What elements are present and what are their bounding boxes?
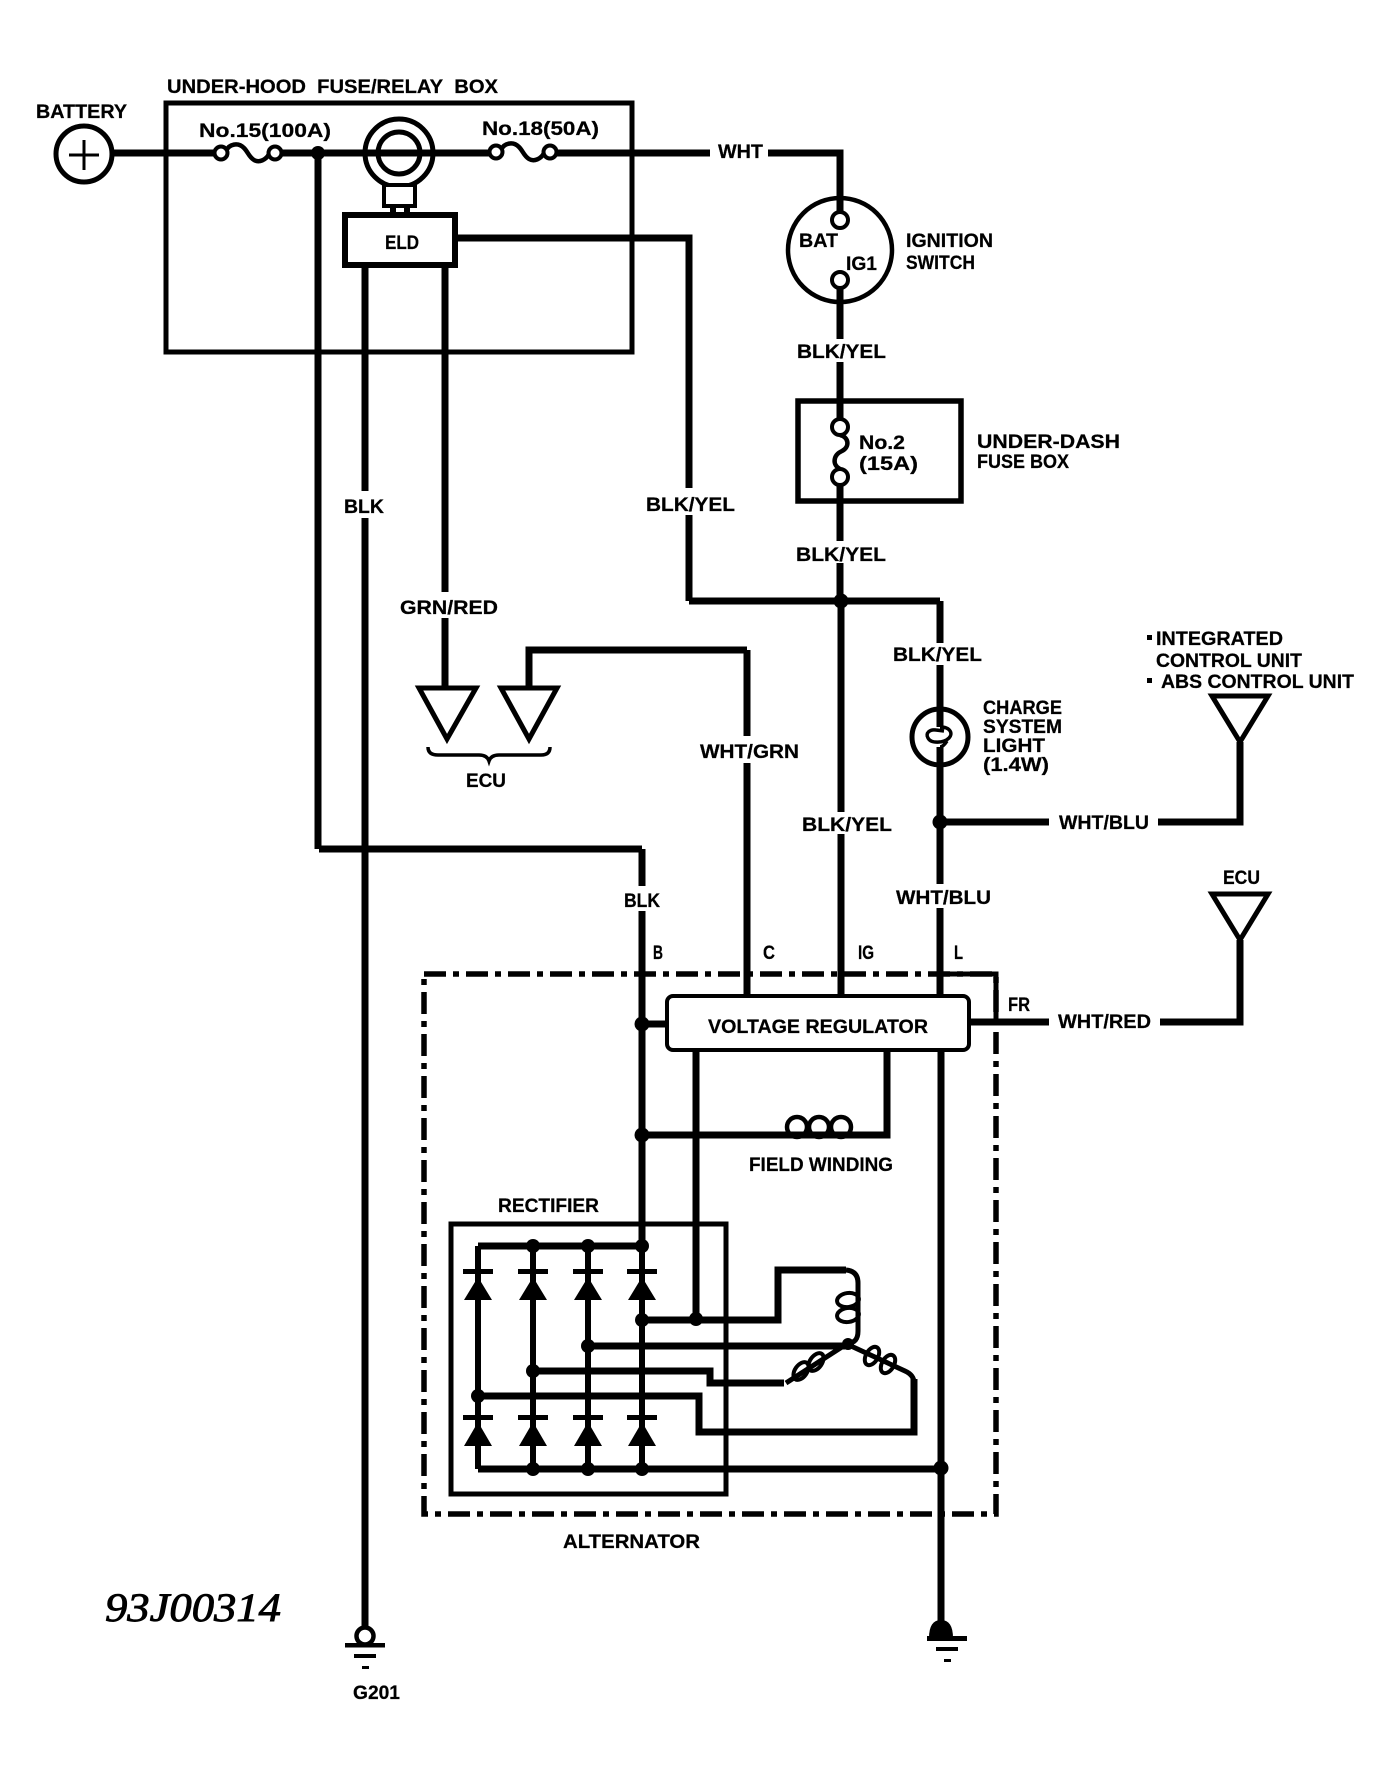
svg-text:BLK/YEL: BLK/YEL (796, 545, 886, 566)
junction dot bottom bus col4 (635, 1462, 649, 1476)
diode column 2 (530, 1246, 536, 1469)
under-hood fuse/relay box (166, 77, 632, 352)
connector triangle integrated/ABS control unit (1147, 629, 1354, 742)
svg-text:SYSTEM: SYSTEM (983, 717, 1062, 738)
ground G201 (345, 1628, 400, 1705)
svg-text:BLK: BLK (624, 891, 660, 912)
svg-text:(1.4W): (1.4W) (983, 755, 1049, 776)
voltage regulator box (667, 996, 969, 1050)
wire ELD output to BLK/YEL column (455, 238, 689, 601)
junction dot main bus (311, 146, 325, 160)
wire WHT/GRN from ECU to C terminal (529, 650, 747, 996)
wire BLK/YEL right column to charge light (937, 601, 944, 822)
svg-text:93J00314: 93J00314 (105, 1585, 281, 1630)
junction dot top bus col2 (526, 1239, 540, 1253)
svg-text:FUSE BOX: FUSE BOX (977, 452, 1069, 473)
svg-text:IG1: IG1 (846, 254, 877, 275)
svg-text:C: C (763, 943, 775, 964)
phase tap wire 3 to stator center (588, 1343, 845, 1350)
svg-text:BATTERY: BATTERY (36, 102, 127, 123)
field winding (642, 1050, 893, 1176)
wire BLK/YEL under-dash to junction (837, 501, 844, 601)
diode column 1 (475, 1246, 481, 1469)
junction dot ground wire (934, 1461, 949, 1476)
junction dot IG node (834, 594, 849, 609)
stator winding coil A (836, 1270, 860, 1343)
junction dot top bus col4 (635, 1239, 649, 1253)
svg-text:WHT/BLU: WHT/BLU (896, 888, 991, 909)
stator center junction (842, 1338, 854, 1350)
rectifier top bus (478, 1243, 642, 1250)
svg-text:BAT: BAT (799, 231, 838, 252)
svg-text:WHT: WHT (718, 142, 763, 163)
wire BLK from junction via B column (318, 158, 642, 1246)
fuse No.2 (15A) (832, 401, 918, 501)
svg-text:LIGHT: LIGHT (983, 736, 1045, 757)
junction dot tap2 (526, 1364, 540, 1378)
svg-text:ELD: ELD (385, 233, 419, 254)
wire WHT/BLU to control units (940, 742, 1240, 822)
wire WHT to ignition (768, 153, 840, 212)
phase tap wire 1 to stator coil C return (478, 1379, 914, 1432)
diode column 3 (585, 1246, 591, 1469)
svg-text:BLK: BLK (344, 497, 384, 518)
diode D1 top (463, 1269, 493, 1300)
ELD unit box (345, 215, 455, 265)
wire L column through alternator (938, 1050, 945, 1623)
junction dot B at regulator (635, 1017, 650, 1032)
ECU connector triangle 1 (419, 688, 476, 739)
svg-text:No.2: No.2 (859, 433, 905, 454)
junction dot top bus col3 (581, 1239, 595, 1253)
junction dot B at field winding (635, 1128, 650, 1143)
svg-text:IGNITION: IGNITION (906, 231, 993, 252)
ECU connector triangle 2 (501, 688, 557, 739)
svg-text:B: B (653, 943, 663, 964)
diode column 4 (639, 1246, 645, 1469)
svg-text:UNDER-HOOD FUSE/RELAY BOX: UNDER-HOOD FUSE/RELAY BOX (167, 77, 498, 98)
wire BLK from ELD to ground G201 (362, 265, 369, 1629)
junction dot tap4 (635, 1313, 649, 1327)
svg-text:WHT/GRN: WHT/GRN (700, 742, 799, 763)
svg-text:ABS CONTROL UNIT: ABS CONTROL UNIT (1161, 672, 1354, 693)
svg-text:CHARGE: CHARGE (983, 698, 1062, 719)
junction dot tap1 (471, 1389, 485, 1403)
stator winding coil C (851, 1344, 914, 1383)
wire B to regulator (642, 1021, 667, 1028)
wire solid corner at alternator border top right (941, 974, 996, 1021)
svg-text:UNDER-DASH: UNDER-DASH (977, 432, 1120, 453)
svg-text:FIELD WINDING: FIELD WINDING (749, 1155, 893, 1176)
junction dot C wire end (689, 1312, 703, 1326)
svg-text:(15A): (15A) (859, 454, 918, 475)
svg-text:BLK/YEL: BLK/YEL (797, 342, 886, 363)
junction dot bottom bus col2 (526, 1462, 540, 1476)
diode D7 bottom (573, 1415, 603, 1446)
wire BLK/YEL IG column to regulator (838, 601, 845, 996)
junction dot L node (933, 815, 948, 830)
charge system light (912, 698, 1062, 776)
ECU brace (428, 747, 550, 761)
wire C below regulator (693, 1050, 700, 1319)
alternator box dash-dot border (424, 974, 996, 1514)
svg-text:ECU: ECU (466, 771, 506, 792)
svg-text:No.15(100A): No.15(100A) (199, 121, 331, 142)
svg-text:ALTERNATOR: ALTERNATOR (563, 1532, 700, 1553)
svg-text:SWITCH: SWITCH (906, 253, 975, 274)
phase tap wire 4 to stator coil A (642, 1270, 846, 1320)
under-dash fuse box (798, 401, 1120, 501)
wire horizontal BLK/YEL bus (689, 598, 940, 605)
svg-text:VOLTAGE REGULATOR: VOLTAGE REGULATOR (708, 1017, 928, 1038)
diode D6 bottom (518, 1415, 548, 1446)
svg-text:L: L (954, 943, 963, 964)
wire WHT/BLU L column down to regulator (937, 822, 944, 996)
wire BLK/YEL ignition to under-dash box (837, 288, 844, 401)
ignition switch (788, 198, 993, 302)
svg-text:No.18(50A): No.18(50A) (482, 119, 599, 140)
svg-text:INTEGRATED: INTEGRATED (1156, 629, 1283, 650)
connector triangle ECU right (1212, 868, 1268, 940)
rectifier box (451, 1196, 726, 1494)
diode D3 top (573, 1269, 603, 1300)
wire battery to main bus (112, 150, 710, 157)
svg-text:FR: FR (1008, 995, 1030, 1016)
svg-text:RECTIFIER: RECTIFIER (498, 1196, 599, 1217)
svg-text:WHT/RED: WHT/RED (1058, 1012, 1151, 1033)
fuse No.18 (50A) (482, 119, 599, 160)
rectifier bottom bus to ground wire (478, 1466, 941, 1473)
svg-text:IG: IG (858, 943, 874, 964)
svg-text:BLK/YEL: BLK/YEL (893, 645, 982, 666)
diode D5 bottom (463, 1415, 493, 1446)
junction dot tap3 (581, 1339, 595, 1353)
diode D2 top (518, 1269, 548, 1300)
stator winding coil B (786, 1345, 845, 1383)
svg-text:CONTROL UNIT: CONTROL UNIT (1156, 651, 1302, 672)
svg-text:ECU: ECU (1223, 868, 1260, 889)
fuse No.15 (100A) (199, 121, 331, 161)
battery (36, 102, 127, 182)
phase tap wire 2 to stator coil B (533, 1371, 784, 1383)
svg-text:BLK/YEL: BLK/YEL (646, 495, 735, 516)
diode D4 top (627, 1269, 657, 1300)
svg-text:BLK/YEL: BLK/YEL (802, 815, 892, 836)
svg-text:GRN/RED: GRN/RED (400, 598, 498, 619)
svg-text:G201: G201 (353, 1683, 400, 1704)
ELD sensor (365, 119, 433, 216)
junction dot bottom bus col3 (581, 1462, 595, 1476)
svg-text:WHT/BLU: WHT/BLU (1059, 813, 1149, 834)
wire WHT/RED FR to ECU (969, 940, 1240, 1022)
diode D8 bottom (627, 1415, 657, 1446)
wire GRN/RED from ELD to ECU (442, 265, 449, 688)
ground alternator (927, 1620, 967, 1662)
